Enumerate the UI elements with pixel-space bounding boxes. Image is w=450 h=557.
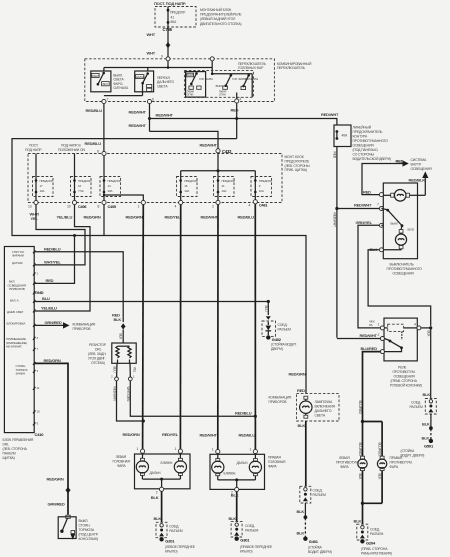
dimmer output pin 7 [102, 98, 109, 104]
svg-text:ВКЛЮЧЕНИЯ: ВКЛЮЧЕНИЯ [315, 405, 336, 409]
left headlight common wire [142, 478, 180, 488]
svg-text:3: 3 [239, 97, 241, 101]
wire WHT from fuse 41 down to combination switch [147, 27, 169, 57]
svg-text:ПОЛОЖЕНИИ ON: ПОЛОЖЕНИИ ON [58, 148, 85, 152]
svg-text:ДВИГАТЕЛЬНОГО ОТСЕКА): ДВИГАТЕЛЬНОГО ОТСЕКА) [200, 22, 241, 26]
svg-text:ПРОТИВОТУМАННОГО: ПРОТИВОТУМАННОГО [387, 267, 423, 271]
svg-text:ПРЕДОХРАНИТЕЛЬ: ПРЕДОХРАНИТЕЛЬ [353, 130, 384, 134]
svg-text:ПРИБОРОВ: ПРИБОРОВ [73, 327, 92, 331]
svg-text:YEL/BLU: YEL/BLU [41, 306, 57, 311]
connector pin at top of combination switch [161, 55, 170, 61]
svg-text:СВЕТА: СВЕТА [315, 414, 326, 418]
left headlight box [135, 454, 191, 489]
svg-text:ФАРА: ФАРА [340, 465, 349, 469]
svg-text:41: 41 [171, 15, 175, 19]
svg-text:(ЛЕВ. СТОРОНА: (ЛЕВ. СТОРОНА [3, 447, 28, 451]
svg-text:6: 6 [152, 98, 154, 102]
parking brake caption [79, 519, 99, 541]
svg-text:4: 4 [175, 205, 177, 209]
wire RED/WHT fuse21 to right headlight [217, 205, 219, 450]
svg-text:СОЕД.: СОЕД. [370, 528, 380, 532]
svg-text:ПРЕДОХРАНИТЕЛЕЙ/РЕЛЕ: ПРЕДОХРАНИТЕЛЕЙ/РЕЛЕ [200, 13, 242, 17]
headlight switch section B [211, 73, 259, 100]
relay caption [390, 366, 422, 388]
svg-text:BLK: BLK [229, 516, 237, 521]
svg-text:14: 14 [108, 184, 112, 188]
svg-text:(СТОЙКА: (СТОЙКА [308, 546, 323, 550]
svg-text:ЗАМКН.: ЗАМКН. [16, 372, 26, 376]
svg-text:ПРОТИВОТУМ.: ПРОТИВОТУМ. [393, 370, 416, 374]
svg-text:ВКЛ. А: ВКЛ. А [10, 299, 19, 303]
svg-text:ДАТЧИК: ДАТЧИК [12, 261, 23, 265]
ground G204 [360, 539, 392, 555]
fog switch pin (ground) [370, 247, 384, 252]
svg-text:RED: RED [396, 159, 404, 164]
wire BLK indicator to ground [298, 421, 306, 486]
flash-to-pass switch [91, 71, 111, 92]
svg-text:GRN/RED: GRN/RED [45, 320, 62, 325]
svg-text:40А: 40А [342, 134, 348, 138]
svg-text:ПОД НАПР.: ПОД НАПР. [25, 148, 42, 152]
label headlights A [199, 77, 213, 81]
svg-text:80А: 80А [171, 20, 177, 24]
headlight switch output pin [235, 97, 242, 103]
svg-text:ДНЕВ. СВЕТ: ДНЕВ. СВЕТ [7, 310, 24, 314]
svg-text:BLU: BLU [42, 296, 50, 301]
wire RED/GRN fuse14-2 to left headlight [142, 205, 145, 450]
fuse/relay box (engine compartment) dashed enclosure [155, 7, 196, 28]
svg-text:BLU/RED: BLU/RED [361, 346, 378, 351]
wire RED/GRN from fuse14 [103, 205, 105, 236]
svg-text:(ЛЕВЫЙ ЗАДНИЙ УГОЛ: (ЛЕВЫЙ ЗАДНИЙ УГОЛ [200, 17, 235, 21]
left headlight top pins [137, 447, 183, 453]
svg-text:RED: RED [363, 189, 371, 194]
svg-text:RED/BLU: RED/BLU [235, 411, 252, 416]
svg-text:4: 4 [414, 322, 416, 326]
branch from fuse 14 to second output [103, 194, 144, 201]
connector label C410 [35, 432, 45, 437]
svg-text:СОЕД.: СОЕД. [313, 489, 323, 493]
svg-text:G501: G501 [424, 443, 434, 448]
right headlight box [210, 454, 265, 489]
svg-text:ВЫКЛ.: ВЫКЛ. [79, 519, 89, 523]
svg-text:7.5А: 7.5А [78, 189, 84, 193]
right fog lamp [377, 456, 412, 471]
engine fuse box caption [200, 8, 242, 26]
svg-text:2: 2 [37, 336, 39, 340]
svg-text:ПРЕДОХР.: ПРЕДОХР. [222, 179, 236, 183]
svg-text:GRN/RED: GRN/RED [48, 502, 65, 507]
svg-text:WHT/GRN: WHT/GRN [126, 387, 130, 402]
combination switch caption [238, 62, 312, 70]
svg-text:BLK: BLK [151, 495, 159, 500]
svg-text:BLK: BLK [297, 509, 305, 514]
svg-text:ВКЛ: ВКЛ [103, 82, 108, 86]
svg-text:1: 1 [133, 375, 135, 379]
svg-text:RED/GRN: RED/GRN [84, 215, 101, 220]
DRL resistor box [112, 343, 136, 363]
svg-text:BLK: BLK [297, 531, 305, 536]
fuse 41 (80A) [167, 7, 187, 27]
left headlight caption [113, 455, 131, 468]
svg-text:BLU: BLU [264, 306, 268, 313]
wire RED/WHT jog to C432 [150, 131, 219, 148]
fog switch pin (indicator feed) [363, 189, 383, 196]
right headlight common wire [218, 478, 256, 487]
svg-text:RED/BLU: RED/BLU [239, 432, 256, 437]
fog switch lower bulb [381, 225, 406, 250]
svg-text:ПРИБОРОВ: ПРИБОРОВ [269, 400, 288, 404]
left fog lamp [336, 456, 367, 471]
svg-text:ВОДИТ. ДВЕРИ): ВОДИТ. ДВЕРИ) [308, 550, 332, 554]
svg-text:2: 2 [378, 333, 380, 337]
svg-text:(ПРАВ. СТОРОНА: (ПРАВ. СТОРОНА [391, 379, 418, 383]
svg-text:СИСТЕМА: СИСТЕМА [411, 158, 427, 162]
svg-text:C406: C406 [78, 205, 86, 209]
door switch terminus G402 [266, 335, 297, 351]
svg-text:RED/BLU: RED/BLU [44, 246, 61, 251]
wire RED/GRN resistor to headlight feed [113, 381, 145, 423]
svg-text:1: 1 [175, 447, 177, 451]
fuse 14 (30A) [100, 156, 121, 201]
svg-text:(ПОД ЦЕНТР.: (ПОД ЦЕНТР. [79, 533, 99, 537]
fuse feed labels [25, 144, 85, 153]
svg-text:3: 3 [37, 369, 39, 373]
internal feed wire [104, 61, 212, 74]
svg-text:1: 1 [378, 322, 380, 326]
svg-text:ПРЕДОХР.: ПРЕДОХР. [170, 11, 186, 15]
svg-text:BLK: BLK [231, 492, 239, 497]
headlight switch dashed sub-box [184, 70, 253, 97]
svg-text:(ЛЕВ. СТОРОНЫ: (ЛЕВ. СТОРОНЫ [285, 164, 310, 168]
svg-text:RED/WHT: RED/WHT [333, 213, 337, 227]
svg-text:ОСВЕЩЕНИЯ: ОСВЕЩЕНИЯ [411, 167, 433, 171]
svg-text:RED/GRN: RED/GRN [126, 215, 143, 220]
svg-text:BLU: BLU [113, 367, 117, 374]
fog fuse caption [353, 126, 391, 162]
svg-text:ПРЕДОХР.: ПРЕДОХР. [259, 179, 273, 183]
svg-text:СОЕД.: СОЕД. [278, 323, 288, 327]
svg-text:КОМБИНАЦИЯ: КОМБИНАЦИЯ [269, 396, 292, 400]
DRL control unit [4, 247, 34, 433]
svg-text:9: 9 [37, 421, 39, 425]
svg-text:БЛИЖН.: БЛИЖН. [161, 461, 174, 465]
svg-text:10А: 10А [40, 189, 45, 193]
svg-text:RED/YEL: RED/YEL [165, 215, 182, 220]
svg-text:BLK: BLK [423, 392, 431, 397]
wire label on indicator feed [289, 372, 306, 377]
svg-text:7: 7 [377, 203, 379, 207]
inline connector on brake wire [65, 487, 70, 494]
right headlight low beam bulb [224, 454, 262, 480]
joint connector right headlight ground [231, 522, 258, 537]
svg-text:РАЗЪЕМ: РАЗЪЕМ [278, 327, 292, 331]
svg-text:1: 1 [37, 272, 39, 276]
fuse 17 (10A) [33, 154, 54, 201]
wire BLK right headlight ground [229, 492, 239, 522]
svg-text:7: 7 [37, 347, 39, 351]
svg-text:BLK: BLK [119, 334, 123, 341]
svg-text:РЕЛЕ: РЕЛЕ [398, 366, 407, 370]
svg-text:СОЕД.: СОЕД. [169, 525, 179, 529]
svg-text:ПРИБОРОВ: ПРИБОРОВ [9, 287, 25, 291]
wire RED/BLU fuse9 to right headlight [254, 204, 257, 449]
dimmer switch [104, 71, 154, 96]
svg-text:МОНТ. БЛОК: МОНТ. БЛОК [285, 155, 304, 159]
svg-text:НЕ КЛИМАТ.: НЕ КЛИМАТ. [6, 345, 22, 349]
fog switch pin (to relay) [356, 220, 384, 227]
joint connector on relay ground [410, 399, 437, 415]
svg-text:ОСВЕЩЕНИЯ: ОСВЕЩЕНИЯ [353, 144, 375, 148]
instrument cluster label [269, 396, 292, 405]
branch to control unit pin1 [34, 236, 74, 284]
svg-text:RED/BLU: RED/BLU [85, 141, 102, 146]
control unit internal labels [6, 250, 27, 376]
svg-text:C461: C461 [259, 204, 267, 208]
svg-text:1: 1 [138, 205, 140, 209]
svg-text:1Б.: 1Б. [369, 323, 373, 327]
svg-text:ПРАВАЯ: ПРАВАЯ [390, 456, 403, 460]
under-dash fuse box dashed enclosure [28, 154, 282, 203]
engine compartment fuse box label [154, 1, 186, 6]
svg-text:GND: GND [35, 290, 44, 295]
svg-text:G401: G401 [309, 539, 319, 544]
ground G501 [401, 414, 434, 457]
svg-text:RED/WHT: RED/WHT [321, 112, 339, 117]
parking brake switch [58, 515, 76, 539]
joint connector left headlight ground [156, 522, 183, 537]
svg-text:РАЗЪЕМ: РАЗЪЕМ [313, 493, 327, 497]
svg-text:ФАРА: ФАРА [268, 465, 277, 469]
svg-text:YEL: YEL [31, 216, 39, 221]
svg-text:ПРЕДОХР.: ПРЕДОХР. [40, 179, 54, 183]
svg-text:C405: C405 [108, 205, 116, 209]
svg-text:ЛЕВАЯ: ЛЕВАЯ [116, 455, 127, 459]
right headlight caption [268, 456, 286, 469]
svg-text:СТОЯН.: СТОЯН. [79, 524, 91, 528]
wire WHT/GRN resistor to right headlight feed [126, 381, 255, 416]
wire RED/BLK arrow up [409, 171, 429, 195]
svg-text:15: 15 [184, 184, 188, 188]
svg-text:(ЛЕВ. ЗАДН.: (ЛЕВ. ЗАДН. [88, 352, 106, 356]
svg-text:RED/GRN: RED/GRN [47, 477, 64, 482]
svg-text:(ПОД ПАНЕЛЬЮ,: (ПОД ПАНЕЛЬЮ, [353, 148, 379, 152]
svg-text:7: 7 [107, 98, 109, 102]
svg-text:СОЕД.: СОЕД. [245, 524, 255, 528]
svg-text:WHT/YEL: WHT/YEL [44, 259, 61, 264]
wire RED/WHT long branch to fog fuse [150, 112, 340, 125]
svg-text:G204: G204 [366, 540, 376, 545]
left headlight low beam bulb [161, 453, 187, 479]
svg-text:BLK: BLK [358, 474, 362, 481]
right headlight high beam bulb [212, 454, 249, 480]
svg-text:BLU/RED: BLU/RED [377, 443, 381, 457]
headlight feed labels [123, 432, 256, 438]
left headlight ground pin [156, 487, 164, 494]
svg-text:BLU/RED: BLU/RED [358, 401, 362, 415]
svg-text:ВЫКЛ: ВЫКЛ [187, 73, 194, 77]
ground G201 [159, 537, 195, 553]
svg-text:КОНТУРА: КОНТУРА [353, 135, 368, 139]
svg-text:ФАРА: ФАРА [117, 464, 126, 468]
svg-text:RED: RED [46, 278, 54, 283]
svg-text:10А: 10А [184, 189, 189, 193]
svg-text:YEL: YEL [133, 367, 137, 373]
fog switch contacts [381, 209, 414, 232]
svg-text:2: 2 [111, 375, 113, 379]
svg-text:17: 17 [40, 184, 44, 188]
svg-text:ГОЛ. ФАРЫ: ГОЛ. ФАРЫ [199, 77, 213, 81]
wire YEL/BLU fuse16 to control unit [34, 205, 90, 311]
svg-text:БЛОК УПРАВЛЕНИЯ: БЛОК УПРАВЛЕНИЯ [3, 438, 34, 442]
svg-text:ДАЛЬН: ДАЛЬН [136, 75, 145, 79]
svg-text:11: 11 [37, 386, 40, 390]
relay contacts [384, 339, 403, 352]
svg-text:RED/BLU: RED/BLU [86, 108, 103, 113]
svg-text:BLK: BLK [422, 436, 430, 441]
svg-text:16: 16 [78, 184, 82, 188]
wire RED from headlight switch [231, 103, 239, 139]
right headlight top pins [212, 447, 258, 453]
bottom connector pins of fuse box [28, 200, 38, 208]
svg-text:BLK: BLK [298, 423, 306, 428]
fuse 16 (7.5A) [71, 154, 92, 201]
wire RED/YEL fuse15 to left headlight [179, 205, 181, 450]
svg-text:ВКЛ2: ВКЛ2 [408, 228, 415, 232]
DRL resistor caption [88, 343, 107, 365]
svg-text:RED/WHT: RED/WHT [129, 123, 147, 128]
inline connector on WHT wire [166, 42, 171, 49]
svg-text:ПЕРЕКЛЮЧАТЕЛЬ: ПЕРЕКЛЮЧАТЕЛЬ [277, 66, 306, 70]
control unit pin stubs [33, 250, 40, 425]
svg-text:ЛАМПОЧКА: ЛАМПОЧКА [315, 400, 333, 404]
svg-text:ОГНИ: ОГНИ [187, 93, 194, 97]
svg-text:КРЫЛО): КРЫЛО) [165, 550, 177, 554]
flash-to-pass caption [113, 73, 129, 90]
svg-text:ПРЕДОХР.: ПРЕДОХР. [78, 179, 92, 183]
feed line from C432 to fuses 15/21/9 [181, 153, 256, 197]
svg-text:БЛОКИРОВКА: БЛОКИРОВКА [7, 321, 26, 325]
dimmer caption [157, 76, 174, 88]
svg-text:ФАРА: ФАРА [390, 465, 399, 469]
svg-text:ЛЕВАЯ: ЛЕВАЯ [339, 456, 350, 460]
svg-text:GRN/YEL: GRN/YEL [356, 220, 373, 225]
wire GRN/YEL switch to relay [358, 225, 380, 328]
branch RED/WHT to fog switch [337, 203, 380, 209]
fog light switch box [383, 183, 417, 259]
output wire labels [30, 212, 255, 221]
svg-text:ПРОТИВОТУМ.: ПРОТИВОТУМ. [390, 461, 413, 465]
svg-text:G201: G201 [165, 538, 175, 543]
joint connector (driver door) [300, 486, 326, 503]
svg-text:BLK: BLK [114, 317, 122, 322]
svg-text:ПОД НАПР. В: ПОД НАПР. В [61, 144, 81, 148]
svg-text:BLK: BLK [154, 516, 162, 521]
svg-text:ТОРМОЗА: ТОРМОЗА [79, 528, 95, 532]
svg-text:RED/GRN: RED/GRN [44, 358, 61, 363]
svg-text:ВОДИТЕЛЬСКОЙ ДВЕРИ): ВОДИТЕЛЬСКОЙ ДВЕРИ) [353, 157, 391, 161]
relay pin 2 [378, 333, 385, 341]
svg-text:RED: RED [231, 108, 239, 113]
wire RED/BLU dimmer to fuse box [85, 104, 104, 152]
svg-text:BLK: BLK [422, 422, 430, 427]
under-dash fuse box caption [285, 155, 310, 172]
svg-text:ДВЕРИ): ДВЕРИ) [271, 347, 283, 351]
ground G301 [235, 537, 273, 554]
relay pin 4 right [414, 322, 421, 330]
control unit caption [3, 438, 34, 460]
svg-text:ОСВЕЩЕНИЯ: ОСВЕЩЕНИЯ [394, 375, 416, 379]
svg-text:8: 8 [97, 150, 99, 154]
svg-text:УГОЛ ДВИГ.: УГОЛ ДВИГ. [88, 357, 106, 361]
svg-text:КОМБИНАЦИЯ: КОМБИНАЦИЯ [73, 322, 96, 326]
relay coil [384, 324, 417, 340]
svg-text:ДАЛЬН.: ДАЛЬН. [237, 461, 249, 465]
interior light system caption [411, 158, 433, 171]
svg-text:ВЫКЛЮЧАТЕЛЬ: ВЫКЛЮЧАТЕЛЬ [390, 263, 415, 267]
svg-text:ОТСЕКА): ОТСЕКА) [91, 361, 105, 365]
svg-text:ВЫКЛ: ВЫКЛ [92, 74, 100, 78]
splice and ground G401 [297, 503, 332, 554]
svg-text:КРЫЛО): КРЫЛО) [240, 550, 252, 554]
passing output pin 6 [147, 98, 154, 104]
svg-text:4: 4 [249, 204, 251, 208]
svg-text:ДАЛЬНЕГО: ДАЛЬНЕГО [315, 409, 332, 413]
svg-text:БЛИЖН.: БЛИЖН. [224, 472, 237, 476]
svg-text:RED/WHT: RED/WHT [129, 110, 147, 115]
fog indicator bulb in switch [383, 190, 417, 202]
svg-text:РУЛЕВОЙ КОЛОНКИ): РУЛЕВОЙ КОЛОНКИ) [390, 384, 422, 388]
svg-text:RED/WHT: RED/WHT [201, 215, 219, 220]
svg-text:ДАЛЬН.: ДАЛЬН. [150, 471, 162, 475]
svg-text:RED/WHT: RED/WHT [200, 432, 218, 437]
svg-text:WHT: WHT [147, 51, 156, 56]
fog lamps ground wires BLK [354, 471, 383, 525]
joint connector fog ground [357, 524, 384, 540]
splice RED to BLK on resistor feed [112, 313, 126, 344]
svg-text:РАЗЪЕМ: РАЗЪЕМ [410, 405, 424, 409]
svg-text:BLU/RED: BLU/RED [358, 443, 362, 457]
svg-text:ВОДИТ. ДВЕРИ): ВОДИТ. ДВЕРИ) [401, 453, 425, 457]
wire RED long loop to high-beam indicator [12, 139, 306, 394]
svg-text:10А: 10А [222, 189, 227, 193]
svg-text:RED/GRN: RED/GRN [123, 432, 140, 437]
wire RED/WHT from passing switch [129, 104, 152, 132]
svg-text:РАЗЪЕМ: РАЗЪЕМ [370, 532, 384, 536]
svg-text:RED/GRN: RED/GRN [113, 387, 117, 402]
svg-text:G301: G301 [240, 538, 250, 543]
svg-text:СВЕТА: СВЕТА [157, 84, 168, 88]
svg-text:9: 9 [161, 55, 163, 59]
fuse 15 (10A) [177, 177, 198, 201]
svg-text:РАМЫ КРЕПЛЕНИЯ): РАМЫ КРЕПЛЕНИЯ) [361, 551, 392, 555]
door diode dashed box [262, 321, 291, 336]
wire RED to interior light system [362, 159, 409, 195]
connector C432 [216, 149, 232, 154]
wire RED/BLU pin1 to DRL resistor [34, 246, 123, 322]
right headlight ground pin [231, 487, 239, 494]
svg-text:YEL/BLU: YEL/BLU [57, 215, 73, 220]
svg-text:ФАРАМИ: ФАРАМИ [12, 254, 24, 258]
combination switch dashed enclosure [85, 59, 275, 102]
svg-text:RED/WHT: RED/WHT [354, 203, 372, 208]
svg-text:8: 8 [98, 205, 100, 209]
relay pin 1 [378, 322, 385, 330]
svg-text:1: 1 [212, 447, 214, 451]
svg-text:ГОЛ.ФАРЫ: ГОЛ.ФАРЫ [245, 77, 259, 81]
wire BLK relay to ground G501 [421, 326, 432, 398]
svg-text:RED/GRN: RED/GRN [289, 372, 306, 377]
